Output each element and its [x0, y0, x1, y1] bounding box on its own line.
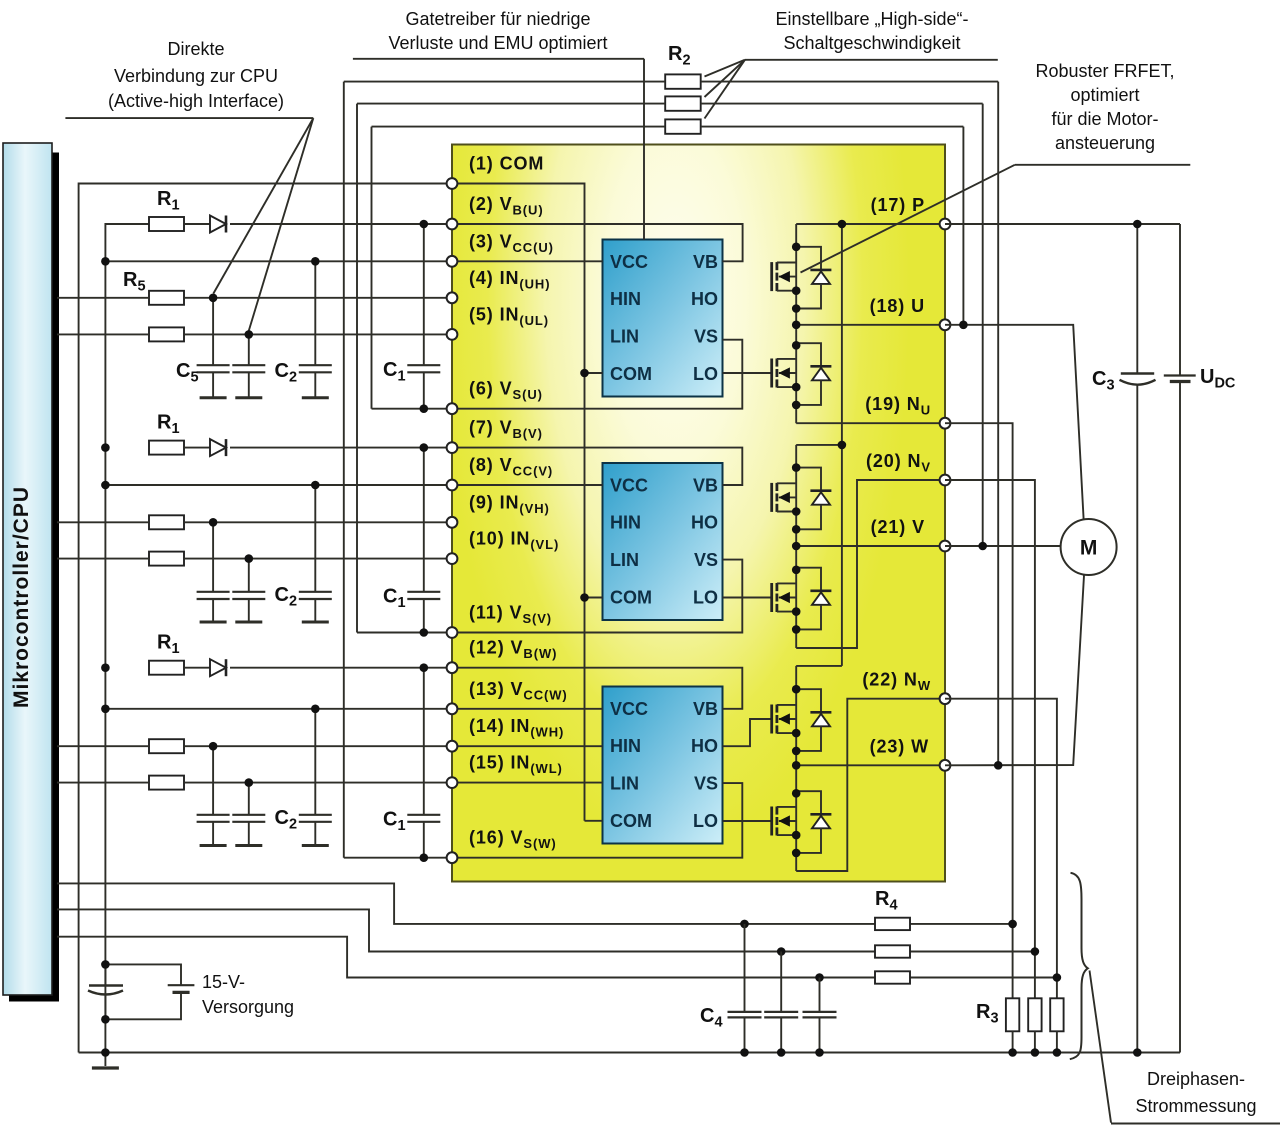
pin 14 terminal — [447, 741, 458, 752]
wire half-bridge V top feed — [796, 444, 842, 446]
annotation: Gatetreiber fuer niedrige Verluste — [353, 9, 644, 240]
resistor R4 row 1 — [875, 918, 910, 930]
motor M — [1061, 519, 1117, 575]
capacitor C2 group W col2 — [248, 783, 250, 815]
svg-text:LO: LO — [693, 811, 718, 831]
svg-text:Direkte: Direkte — [167, 39, 224, 59]
wire R2 row2 — [357, 103, 665, 105]
wire R2 left vertical 3 — [371, 127, 373, 409]
svg-text:Strommessung: Strommessung — [1135, 1096, 1256, 1116]
annotation: Einstellbare High-side Schaltgeschwindigkeit — [705, 9, 998, 119]
capacitor C2 group V col3 — [314, 485, 316, 592]
pin 21 terminal — [940, 541, 951, 552]
wire half-bridge W main vertical — [795, 666, 797, 871]
wire N_U sense drop — [945, 423, 1013, 998]
resistor R4 row 2 — [875, 945, 910, 957]
wire input H row (U) — [57, 297, 149, 299]
svg-text:LIN: LIN — [610, 774, 639, 794]
diode body low-side U — [796, 343, 831, 405]
wire P to DC bus — [945, 223, 1180, 225]
capacitor C2 group U col1 — [212, 298, 214, 365]
node junction — [101, 663, 110, 672]
resistor R2 row 1 — [665, 74, 701, 88]
capacitor C4 — [819, 978, 821, 1012]
node R4 left junctions — [740, 920, 749, 929]
pin 11 terminal — [447, 627, 458, 638]
capacitor C2 group U col3 — [314, 261, 316, 365]
svg-text:Verluste und EMU optimiert: Verluste und EMU optimiert — [388, 33, 607, 53]
resistor R4 row 3 — [875, 971, 910, 983]
node junction — [311, 481, 320, 490]
svg-text:ansteuerung: ansteuerung — [1055, 133, 1155, 153]
svg-text:VCC: VCC — [610, 699, 648, 719]
svg-text:VB: VB — [693, 475, 718, 495]
wire R2 left vertical 2 — [356, 104, 358, 633]
svg-text:15-V-: 15-V- — [202, 972, 245, 992]
pin 6 terminal — [447, 403, 458, 414]
svg-text:COM: COM — [610, 588, 652, 608]
node junction — [311, 705, 320, 714]
svg-text:HIN: HIN — [610, 736, 641, 756]
pin 18 terminal — [940, 319, 951, 330]
node ground junction — [101, 1048, 110, 1057]
pin 20 terminal — [940, 475, 951, 486]
node 15V bottom — [101, 1015, 110, 1024]
node junction — [209, 518, 218, 527]
node junction — [245, 330, 254, 339]
annotation: Robuster FRFET — [801, 61, 1191, 273]
node junction — [101, 705, 110, 714]
capacitor C2 group U col2 — [248, 334, 250, 365]
svg-text:HO: HO — [691, 289, 718, 309]
pin 16 terminal — [447, 852, 458, 863]
wire LO(U) gate lead — [723, 372, 772, 374]
transistor FRFET low-side V — [772, 583, 797, 612]
wire VCC(U) row internal — [452, 260, 603, 262]
pin 22 terminal — [940, 693, 951, 704]
diode body high-side V — [796, 468, 831, 530]
svg-text:HO: HO — [691, 513, 718, 533]
wire VCC row (V) — [105, 484, 452, 486]
wire half-bridge W top feed — [796, 665, 842, 667]
resistor input H (W) — [149, 739, 184, 753]
wire input L row (U) — [57, 333, 149, 335]
resistor input H (V) — [149, 515, 184, 529]
pin 3 terminal — [447, 256, 458, 267]
wire R2 drop to U — [962, 127, 964, 325]
wire 15V rail — [105, 224, 149, 1053]
svg-text:(21) V: (21) V — [871, 517, 925, 537]
svg-text:VB: VB — [693, 699, 718, 719]
svg-text:HIN: HIN — [610, 289, 641, 309]
svg-text:(20) NV​: (20) NV​ — [866, 451, 931, 475]
pin 2 terminal — [447, 219, 458, 230]
wire half-bridge U top feed — [796, 223, 945, 225]
15V supply source symbol — [105, 964, 181, 985]
wire N_U return — [796, 422, 945, 424]
svg-text:HIN: HIN — [610, 513, 641, 533]
wire VCC(V) row internal — [452, 484, 603, 486]
wire R1 row (U) — [184, 223, 210, 225]
capacitor UDC (DC source) — [1179, 224, 1181, 376]
wire LO(V) gate lead — [723, 597, 772, 599]
svg-text:VS: VS — [694, 327, 718, 347]
wire R3 bottom — [1056, 1031, 1058, 1052]
node R4 right junctions — [1008, 920, 1017, 929]
wire CPU bus 2 — [57, 909, 1035, 951]
diode body low-side W — [796, 791, 831, 853]
svg-text:Verbindung zur CPU: Verbindung zur CPU — [114, 66, 278, 86]
transistor FRFET low-side U — [772, 359, 797, 388]
svg-text:LO: LO — [693, 364, 718, 384]
svg-text:VS: VS — [694, 774, 718, 794]
capacitor C2 group W col1 — [212, 746, 214, 815]
svg-text:Mikrocontroller/CPU: Mikrocontroller/CPU — [10, 486, 33, 708]
node 15V top — [101, 960, 110, 969]
svg-text:Versorgung: Versorgung — [202, 997, 294, 1017]
wire LIN(W) row internal — [452, 782, 603, 784]
resistor R3 — [1050, 998, 1063, 1031]
resistor R2 row 2 — [665, 96, 701, 110]
resistor R3 — [1006, 998, 1019, 1031]
svg-text:(1) COM: (1) COM — [469, 154, 544, 174]
wire bottom common bus — [79, 1052, 1180, 1054]
wire R2 drop to W — [997, 82, 999, 766]
wire W phase to motor — [945, 575, 1084, 765]
node junction — [245, 778, 254, 787]
node P bus top — [838, 220, 847, 229]
svg-text:LO: LO — [693, 588, 718, 608]
pin 19 terminal — [940, 418, 951, 429]
svg-text:VCC: VCC — [610, 252, 648, 272]
capacitor C1 (U) — [423, 224, 425, 365]
node junction — [420, 853, 429, 862]
svg-text:Einstellbare „High-side“-: Einstellbare „High-side“- — [775, 9, 968, 29]
node W / R2 junction — [994, 761, 1003, 770]
wire HO(W) gate jog — [723, 719, 772, 746]
svg-text:für die Motor-: für die Motor- — [1051, 109, 1158, 129]
capacitor C2 group W col3 — [314, 709, 316, 815]
wire input L row (W) — [57, 782, 149, 784]
pin 7 terminal — [447, 442, 458, 453]
capacitor C1 (V) — [423, 448, 425, 592]
transistor FRFET high-side U — [772, 262, 797, 291]
wire V phase to motor — [945, 545, 1061, 547]
wire half-bridge V main vertical — [795, 445, 797, 648]
wire R3 bottom — [1012, 1031, 1014, 1052]
wire N_V sense drop — [945, 480, 1035, 998]
wire VS(V) internal loop — [452, 560, 742, 633]
node junction — [101, 257, 110, 266]
node half-bridge W junctions — [792, 685, 801, 694]
capacitor C2 group V col1 — [212, 522, 214, 592]
wire VB(U) bootstrap row — [452, 224, 743, 261]
wire COM stub block V — [585, 597, 603, 599]
wire input H row (V) — [57, 521, 149, 523]
wire VS(U) internal loop — [452, 340, 742, 409]
pin 8 terminal — [447, 480, 458, 491]
wire VS(V) left return — [357, 632, 452, 634]
wire input L row (V) — [57, 558, 149, 560]
node C4 bottom — [815, 1048, 824, 1057]
resistor R2 row 3 — [665, 119, 701, 133]
wire R2 row1 — [344, 81, 665, 83]
diode D (W) — [210, 659, 226, 676]
svg-text:COM: COM — [610, 364, 652, 384]
capacitor C1 (W) — [423, 668, 425, 815]
wire R1 row (W) — [184, 667, 210, 669]
wire VCC row (W) — [105, 708, 452, 710]
wire N_V return — [796, 480, 945, 648]
wire VB(V) bootstrap row — [452, 448, 742, 485]
svg-text:Dreiphasen-: Dreiphasen- — [1147, 1069, 1245, 1089]
resistor input L (V) — [149, 552, 184, 566]
node P bus V feed — [838, 441, 847, 450]
pin 23 terminal — [940, 760, 951, 771]
resistor input H (U) — [149, 291, 184, 305]
wire R1 row (V) — [184, 447, 210, 449]
node junction — [209, 294, 218, 303]
svg-text:Schaltgeschwindigkeit: Schaltgeschwindigkeit — [783, 33, 960, 53]
wire half-bridge U main vertical — [795, 224, 797, 423]
capacitor C3 — [1136, 224, 1138, 374]
node C4 bottom — [777, 1048, 786, 1057]
node V / R2 junction — [978, 542, 987, 551]
wire LO(W) gate lead — [723, 820, 772, 822]
Mikrocontroller/CPU block — [3, 143, 59, 1002]
wire COM return (left) — [79, 184, 452, 1053]
wire R2 row3 — [372, 126, 666, 128]
15V supply capacitor (electrolytic) — [104, 964, 106, 985]
node junction — [245, 554, 254, 563]
node U / R2 junction — [959, 321, 968, 330]
wire phase W line — [796, 764, 945, 766]
pin 1 terminal — [447, 178, 458, 189]
pin 9 terminal — [447, 517, 458, 528]
svg-text:VB: VB — [693, 252, 718, 272]
wire VS(W) internal loop — [452, 783, 742, 858]
node junction — [101, 443, 110, 452]
node R3 bottom — [1008, 1048, 1017, 1057]
node junction — [420, 220, 429, 229]
diode body high-side W — [796, 689, 831, 751]
node junction — [420, 663, 429, 672]
svg-text:(23) W: (23) W — [870, 736, 929, 756]
wire R2 left vertical 1 — [343, 82, 345, 858]
diode D (U) — [210, 216, 226, 233]
node junction — [420, 628, 429, 637]
wire VCC row (U) — [105, 260, 452, 262]
svg-text:Gatetreiber für niedrige: Gatetreiber für niedrige — [405, 9, 590, 29]
capacitor C4 — [744, 924, 746, 1012]
capacitor C2 group V col2 — [248, 559, 250, 592]
resistor input L (W) — [149, 776, 184, 790]
node R3 bottom — [1031, 1048, 1040, 1057]
svg-text:(Active-high Interface): (Active-high Interface) — [108, 91, 284, 111]
gate driver block U (blue) — [603, 240, 723, 397]
node COM bus U — [580, 369, 589, 378]
svg-text:M: M — [1080, 537, 1098, 560]
wire VS(W) left return — [344, 857, 452, 859]
transistor FRFET low-side W — [772, 807, 797, 836]
wire P bus — [841, 224, 843, 666]
svg-text:LIN: LIN — [610, 550, 639, 570]
wire VS(U) left return — [372, 408, 453, 410]
node half-bridge U junctions — [792, 243, 801, 252]
ground symbol — [104, 1053, 106, 1067]
pin 13 terminal — [447, 703, 458, 714]
node junction — [311, 257, 320, 266]
pin 4 terminal — [447, 292, 458, 303]
node C4 bottom — [740, 1048, 749, 1057]
node junction — [101, 481, 110, 490]
resistor input L (U) — [149, 327, 184, 341]
IC block (yellow) — [452, 145, 945, 882]
wire R2 drop to V — [982, 104, 984, 546]
svg-text:COM: COM — [610, 811, 652, 831]
wire R3 bottom — [1034, 1031, 1036, 1052]
node C3 bottom — [1133, 1048, 1142, 1057]
wire phase U line — [796, 324, 945, 326]
svg-text:HO: HO — [691, 736, 718, 756]
transistor FRFET high-side V — [772, 483, 797, 512]
node R3 bottom — [1053, 1048, 1062, 1057]
capacitor C4 — [780, 952, 782, 1012]
pin 10 terminal — [447, 553, 458, 564]
gate driver block V (blue) — [603, 463, 723, 620]
wire input H row (W) — [57, 745, 149, 747]
annotation: Dreiphasen-Strommessung — [1090, 971, 1280, 1124]
wire CPU bus 1 — [57, 883, 1013, 924]
svg-text:LIN: LIN — [610, 327, 639, 347]
svg-text:VS: VS — [694, 550, 718, 570]
diode body high-side U — [796, 247, 831, 309]
node half-bridge V junctions — [792, 463, 801, 472]
pin 12 terminal — [447, 662, 458, 673]
node junction — [420, 443, 429, 452]
wire phase V line — [796, 545, 945, 547]
gate driver block W (blue) — [603, 687, 723, 844]
resistor R3 — [1028, 998, 1041, 1031]
svg-text:optimiert: optimiert — [1070, 85, 1139, 105]
pin 15 terminal — [447, 777, 458, 788]
node C3 top — [1133, 220, 1142, 229]
wire N_W return — [796, 699, 945, 871]
node junction — [209, 742, 218, 751]
svg-text:Robuster FRFET,: Robuster FRFET, — [1035, 61, 1174, 81]
wire U phase to motor — [945, 325, 1084, 519]
node junction — [420, 404, 429, 413]
wire HIN(W) row internal — [452, 745, 603, 747]
wire CPU bus 3 — [57, 937, 1057, 978]
annotation: Direkte Verbindung zur CPU — [65, 39, 313, 331]
wire COM stub block U — [585, 372, 603, 374]
node COM bus V — [580, 593, 589, 602]
wire VB(W) bootstrap row — [452, 668, 742, 709]
pin 5 terminal — [447, 329, 458, 340]
wire COM pin1 row + internal COM bus — [452, 184, 585, 821]
pin 17 terminal — [940, 219, 951, 230]
diode body low-side V — [796, 568, 831, 630]
svg-text:(18) U: (18) U — [870, 296, 925, 316]
transistor FRFET high-side W — [772, 705, 797, 734]
svg-text:(17) P: (17) P — [871, 195, 925, 215]
wire COM stub block W — [585, 820, 603, 822]
brace three-phase current sense — [1070, 873, 1088, 1059]
wire VCC(W) row internal — [452, 708, 603, 710]
svg-text:VCC: VCC — [610, 475, 648, 495]
diode D (V) — [210, 439, 226, 456]
wire N_W sense drop — [945, 699, 1057, 999]
